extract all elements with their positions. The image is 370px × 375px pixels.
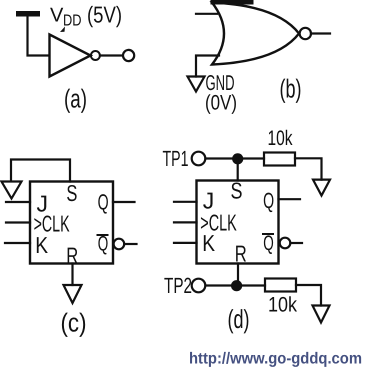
svg-text:(5V): (5V) [87, 2, 122, 28]
svg-text:(b): (b) [280, 74, 302, 104]
svg-text:10k: 10k [268, 294, 297, 317]
svg-text:DD: DD [63, 13, 82, 30]
svg-text:Q: Q [263, 188, 274, 213]
svg-text:Q: Q [98, 190, 109, 215]
svg-text:Q: Q [263, 232, 274, 255]
svg-text:(0V): (0V) [205, 92, 237, 115]
svg-text:S: S [66, 180, 77, 206]
svg-text:TP1: TP1 [163, 146, 189, 171]
svg-text:K: K [202, 230, 215, 256]
svg-text:(d): (d) [228, 304, 250, 334]
svg-text:Q: Q [98, 233, 109, 256]
svg-text:(c): (c) [61, 308, 87, 338]
svg-text:R: R [66, 243, 78, 269]
svg-text:(a): (a) [64, 84, 87, 114]
svg-text:S: S [231, 178, 243, 204]
svg-text:10k: 10k [268, 127, 293, 150]
svg-text:TP2: TP2 [164, 273, 192, 298]
svg-text:R: R [235, 241, 247, 267]
svg-text:V: V [50, 5, 64, 27]
svg-text:http://www.go-gddq.com: http://www.go-gddq.com [189, 351, 362, 368]
svg-text:K: K [35, 232, 48, 258]
